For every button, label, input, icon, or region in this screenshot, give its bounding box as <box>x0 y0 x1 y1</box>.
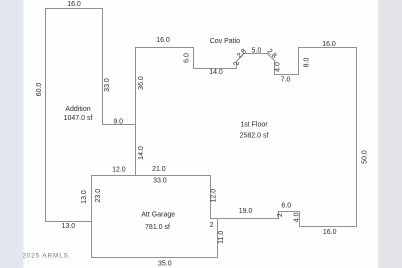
svg-text:60.0: 60.0 <box>36 83 43 97</box>
svg-text:35.0: 35.0 <box>158 261 172 268</box>
wall: patio step up (2) <box>236 62 238 69</box>
svg-text:19.0: 19.0 <box>239 208 253 215</box>
wall: patio left drop (6.0) <box>193 48 195 69</box>
wall: bottom right (16.0) <box>300 226 357 228</box>
svg-text:2025 ARMLS: 2025 ARMLS <box>22 253 68 260</box>
svg-text:14.0: 14.0 <box>138 146 145 160</box>
svg-text:Cov Patio: Cov Patio <box>210 38 240 45</box>
svg-text:Addition: Addition <box>65 106 90 113</box>
svg-text:Att Garage: Att Garage <box>141 211 175 218</box>
wall: notch top (6.0) <box>279 211 300 213</box>
svg-text:13.0: 13.0 <box>62 223 76 230</box>
wall: garage right (11.0) <box>217 219 219 258</box>
wall: patio bottom right (7.0) <box>275 74 299 76</box>
wall: notch right (4.0) <box>299 212 301 227</box>
svg-text:16.0: 16.0 <box>67 1 81 8</box>
svg-text:6.0: 6.0 <box>281 202 291 209</box>
svg-text:36.0: 36.0 <box>138 76 145 90</box>
svg-text:4.0: 4.0 <box>275 62 282 72</box>
wall: notch left (2) <box>278 212 280 219</box>
svg-text:2.8: 2.8 <box>236 48 248 60</box>
svg-text:7.0: 7.0 <box>281 76 291 83</box>
svg-text:2: 2 <box>210 222 214 229</box>
svg-text:16.0: 16.0 <box>323 229 337 236</box>
svg-text:1047.0 sf: 1047.0 sf <box>64 115 93 122</box>
wall: patio right drop (4.0) <box>274 61 276 75</box>
wall: 1st floor east of garage (12.0) <box>210 176 212 219</box>
wall: rise to top (8.0) <box>298 48 300 75</box>
wall: garage top (12.0 + 21.0 = 33.0) <box>92 175 211 177</box>
svg-text:13.0: 13.0 <box>81 190 88 204</box>
wall: addition right upper (33.0) <box>102 9 104 125</box>
wall: 1st floor south (2 + 19.0) <box>211 218 279 220</box>
svg-text:2582.0 sf: 2582.0 sf <box>240 132 269 139</box>
svg-text:16.0: 16.0 <box>156 37 170 44</box>
wall: garage left (13.0 / 23.0) <box>91 176 93 258</box>
wall: 1st floor top-left (16.0) <box>136 47 194 49</box>
svg-text:50.0: 50.0 <box>361 150 368 164</box>
svg-text:1st Floor: 1st Floor <box>240 121 268 128</box>
svg-text:33.0: 33.0 <box>104 78 111 92</box>
svg-text:5.0: 5.0 <box>252 48 262 55</box>
svg-text:8.0: 8.0 <box>303 58 310 68</box>
wall: patio bottom (14.0) <box>194 68 237 70</box>
wall: step 9.0 <box>103 124 136 126</box>
wall: patio diagonal right (2.8) <box>267 54 274 61</box>
svg-text:21.0: 21.0 <box>152 166 166 173</box>
svg-text:23.0: 23.0 <box>95 189 102 203</box>
svg-text:12.0: 12.0 <box>210 189 217 203</box>
wall: garage bottom (35.0) <box>92 257 218 259</box>
svg-text:33.0: 33.0 <box>153 177 167 184</box>
photo edge strip left <box>0 0 25 268</box>
wall: 1st floor west (36.0 / 14.0) <box>135 48 137 176</box>
svg-text:2.8: 2.8 <box>266 48 278 60</box>
wall: addition left (60.0) <box>45 9 47 222</box>
svg-text:9.0: 9.0 <box>113 119 123 126</box>
wall: patio diagonal left (2.8) <box>237 54 244 62</box>
wall: addition bottom (13.0) <box>46 221 92 223</box>
photo edge strip right <box>377 0 402 268</box>
svg-text:11.0: 11.0 <box>218 231 225 244</box>
svg-text:14.0: 14.0 <box>209 69 223 76</box>
wall: east (50.0) <box>356 48 358 227</box>
svg-text:781.0 sf: 781.0 sf <box>145 224 170 231</box>
svg-text:12.0: 12.0 <box>112 167 126 174</box>
wall: patio top (5.0) <box>244 53 267 55</box>
wall: addition top (16.0) <box>46 8 103 10</box>
wall: top right (16.0) <box>299 47 357 49</box>
svg-text:16.0: 16.0 <box>322 41 336 48</box>
svg-text:2: 2 <box>277 213 284 217</box>
svg-text:2: 2 <box>234 61 241 65</box>
svg-text:4.0: 4.0 <box>294 212 301 222</box>
svg-text:6.0: 6.0 <box>183 53 190 63</box>
